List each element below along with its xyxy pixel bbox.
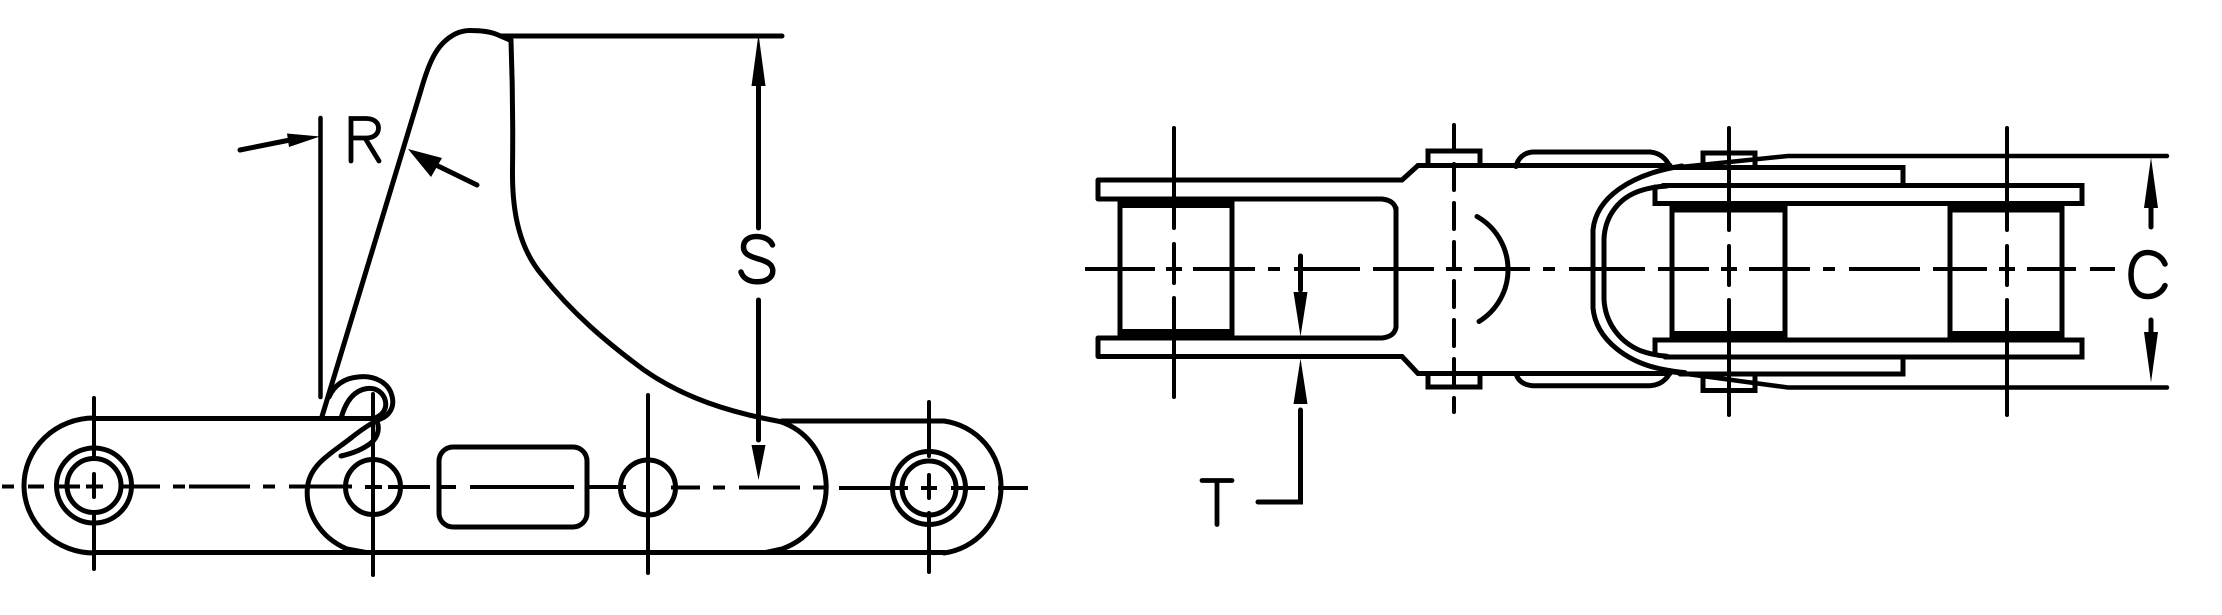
C dimension upper arrow <box>2149 200 2154 227</box>
pin 2 vertical centerline <box>371 394 375 575</box>
S dimension top extension line <box>501 34 782 39</box>
plan pin 1 vertical centerline <box>1172 128 1176 397</box>
barrel top level line <box>1418 163 1670 168</box>
barrel bottom level line <box>1418 371 1670 376</box>
barrel left face <box>1394 208 1399 327</box>
letter T <box>1202 481 1232 525</box>
clevis top bump tab <box>1516 152 1670 167</box>
attachment plate right end arc <box>766 422 826 553</box>
middle roller side edges <box>1672 204 1785 341</box>
barrel top lug <box>1428 151 1480 166</box>
chain horizontal centerline <box>2 487 1028 489</box>
T dimension upper arrow line <box>1298 256 1303 290</box>
inner bar top edge <box>1671 168 1903 186</box>
plan joint dashed vertical centerline <box>1452 125 1456 412</box>
C dimension top extension line <box>1671 156 2167 168</box>
clevis outer bend curve <box>1593 166 1685 373</box>
clevis inner bend curve <box>1604 186 1667 356</box>
pin 1 vertical centerline <box>92 398 96 569</box>
right link bottom lug <box>1703 374 1755 391</box>
C dimension bottom extension line <box>1672 372 2167 388</box>
R dimension vertical extension line <box>318 118 323 397</box>
left roller side edges <box>1120 199 1232 338</box>
pin 4 vertical centerline <box>927 402 931 572</box>
C dimension lower arrow <box>2149 320 2154 340</box>
S dimension upper line with up arrowhead <box>756 80 761 228</box>
T dimension lower arrow line <box>1258 410 1301 502</box>
left roller dark bands <box>1120 199 1232 208</box>
common bottom edge of link plates <box>96 550 944 555</box>
R dimension left arrow <box>240 140 290 150</box>
attachment plate left end arc with hook outer curl <box>307 377 393 553</box>
R dimension right arrow pointing at slant edge <box>438 166 477 185</box>
slot in attachment plate <box>439 447 587 527</box>
barrel socket arc <box>1477 217 1508 322</box>
clevis bottom bump tab <box>1516 373 1670 386</box>
right link top lug <box>1703 153 1755 168</box>
pin 3 vertical centerline <box>646 395 650 573</box>
right roller dark bands <box>1950 204 2062 213</box>
left link bottom sidebar <box>1098 327 1418 374</box>
letter R <box>351 119 379 162</box>
right roller side edges <box>1950 204 2062 341</box>
attachment hook inner tail <box>341 419 378 456</box>
inner bar bottom edge <box>1680 357 1903 374</box>
right link bottom plate <box>1655 340 2082 357</box>
link plate 1 top edge <box>94 416 373 421</box>
barrel bottom lug <box>1428 374 1480 388</box>
attachment hook inner curl <box>341 388 386 418</box>
pin 4 pin circle <box>902 461 956 515</box>
pin 1 bushing circle <box>57 448 132 523</box>
pin 4 bushing circle <box>893 452 966 525</box>
link plate 1 left end arc <box>24 418 94 553</box>
pin 3 hole circle <box>621 460 676 515</box>
pin 2 hole circle <box>346 460 401 515</box>
letter C <box>2131 253 2165 297</box>
plan view horizontal centerline <box>1085 267 2115 271</box>
link plate 3 top edge <box>782 419 944 424</box>
S dimension lower line with down arrowhead <box>756 300 761 440</box>
plan pin 2 vertical centerline <box>1727 128 1731 415</box>
middle roller dark bands <box>1672 204 1785 213</box>
plan pin 3 vertical centerline <box>2005 128 2009 415</box>
attachment tooth outline: slant edge, rounded tip, right edge, sweep to plate <box>322 31 780 422</box>
right link top plate <box>1655 186 2082 204</box>
left link top sidebar <box>1098 166 1418 211</box>
letter S <box>741 237 773 282</box>
pin 1 pin circle <box>67 459 121 513</box>
link plate 3 right end arc <box>944 421 1001 553</box>
